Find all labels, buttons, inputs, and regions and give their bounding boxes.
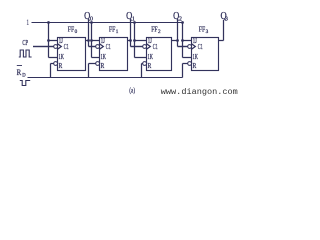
svg-text:(a): (a) (129, 85, 135, 94)
svg-text:1K: 1K (59, 53, 65, 61)
svg-text:1J: 1J (59, 37, 63, 45)
svg-text:C1: C1 (198, 43, 203, 51)
svg-text:C1: C1 (106, 43, 111, 51)
svg-text:0: 0 (75, 29, 78, 35)
svg-text:3: 3 (225, 16, 228, 22)
svg-text:CP: CP (22, 39, 28, 47)
svg-text:1K: 1K (148, 53, 154, 61)
svg-text:R: R (148, 62, 152, 70)
svg-text:1K: 1K (101, 53, 107, 61)
svg-text:C1: C1 (153, 43, 158, 51)
svg-text:FF: FF (199, 24, 205, 33)
svg-text:FF: FF (151, 24, 157, 33)
svg-text:FF: FF (68, 24, 74, 33)
svg-text:R: R (17, 67, 22, 77)
svg-text:R: R (193, 62, 197, 70)
svg-text:R: R (101, 62, 105, 70)
svg-text:1J: 1J (193, 37, 197, 45)
svg-text:1: 1 (116, 29, 119, 35)
svg-text:1K: 1K (193, 53, 199, 61)
svg-text:2: 2 (179, 16, 182, 22)
svg-text:www.diangon.com: www.diangon.com (161, 87, 238, 97)
svg-text:3: 3 (206, 29, 209, 35)
svg-text:1: 1 (26, 17, 29, 27)
svg-text:1J: 1J (148, 37, 152, 45)
svg-text:D: D (22, 72, 25, 78)
svg-text:C1: C1 (64, 43, 69, 51)
svg-text:2: 2 (158, 29, 161, 35)
svg-text:0: 0 (90, 16, 93, 22)
svg-text:R: R (59, 62, 63, 70)
svg-text:1J: 1J (101, 37, 105, 45)
svg-text:FF: FF (109, 24, 115, 33)
svg-text:1: 1 (132, 16, 135, 22)
